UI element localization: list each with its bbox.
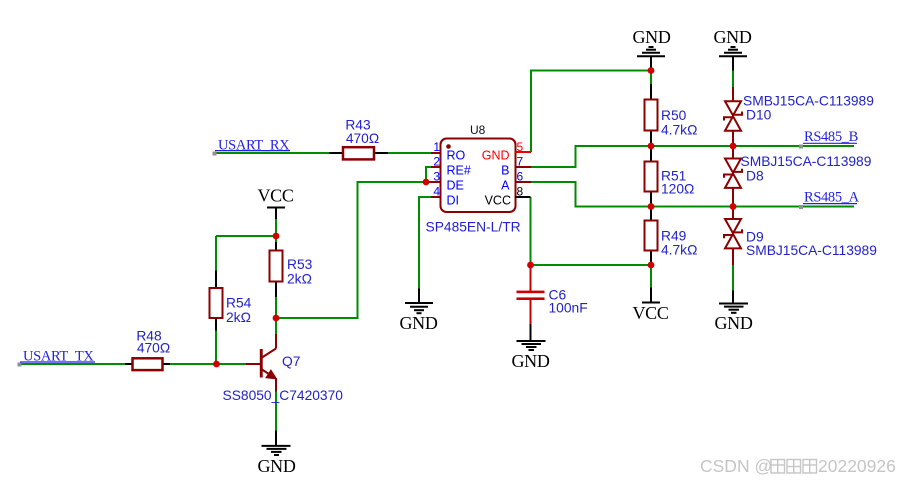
svg-text:120Ω: 120Ω	[661, 182, 694, 197]
junction RS485_B / R50-R51	[648, 143, 655, 150]
svg-text:GND: GND	[399, 313, 437, 333]
ground GND3 (below pin4 DI)	[418, 289, 420, 304]
wire R54 bottom to base node	[215, 331, 217, 365]
svg-text:GND: GND	[713, 27, 751, 47]
resistor R43	[329, 152, 342, 154]
junction RS485_A / R51-R49	[648, 203, 655, 210]
ground GND2 (top, above D10)	[732, 56, 734, 70]
svg-text:CSDN @: CSDN @	[700, 456, 772, 476]
svg-text:GND: GND	[632, 27, 670, 47]
U8 pin 4 stub	[431, 196, 441, 198]
svg-text:Q7: Q7	[282, 354, 300, 369]
U8 pin 2 stub	[431, 166, 441, 168]
U8 pin 6 stub	[516, 181, 532, 183]
svg-text:R53: R53	[287, 257, 313, 272]
wire node to R54 branch	[216, 235, 276, 237]
junction RS485_A / D8-D9	[730, 203, 737, 210]
svg-text:R49: R49	[661, 228, 687, 243]
wire VCC1 down to R53 node	[275, 219, 277, 236]
U8 pin 8 stub	[516, 196, 531, 198]
wire R53 bottom to collector node	[275, 297, 277, 318]
junction RS485_B / D10-D8	[730, 143, 737, 150]
svg-text:2: 2	[433, 155, 440, 169]
ground GND1 (top, above R50)	[650, 56, 652, 70]
svg-text:4.7kΩ: 4.7kΩ	[661, 242, 697, 257]
svg-text:470Ω: 470Ω	[346, 131, 379, 146]
IC U8 body SP485EN	[441, 139, 516, 213]
wire C6 node to R49/VCC node	[531, 264, 652, 266]
svg-text:B: B	[501, 164, 509, 178]
wire pin6 A to RS485_A line	[531, 182, 854, 207]
junction VCC net / C6 top	[527, 262, 534, 269]
wire collector node down	[275, 318, 277, 334]
watermark CSDN	[700, 456, 896, 476]
power VCC2 symbol (below R49)	[650, 288, 652, 303]
svg-text:GND: GND	[714, 313, 752, 333]
svg-text:1: 1	[433, 140, 440, 154]
resistor R50	[650, 84, 652, 100]
wire D9 bottom to GND6	[732, 265, 734, 291]
svg-text:2kΩ: 2kΩ	[226, 310, 251, 325]
U8 pin 3 stub	[426, 181, 441, 183]
wire pin7 B to RS485_B line	[531, 146, 854, 167]
wire R54 top branch vertical	[215, 236, 217, 271]
svg-text:RE#: RE#	[447, 164, 471, 178]
ground GND4 (below Q7 emitter)	[275, 431, 277, 446]
svg-text:GND: GND	[511, 351, 549, 371]
svg-text:A: A	[501, 179, 510, 193]
svg-text:GND: GND	[257, 456, 295, 476]
svg-text:3: 3	[433, 170, 440, 184]
svg-text:2kΩ: 2kΩ	[287, 272, 312, 287]
svg-text:470Ω: 470Ω	[137, 340, 170, 355]
wire USART_RX to R43	[215, 152, 329, 154]
svg-text:4.7kΩ: 4.7kΩ	[661, 123, 697, 138]
resistor R49	[650, 207, 652, 221]
svg-text:GND: GND	[482, 149, 510, 163]
transistor Q7	[246, 363, 260, 365]
wire R49 bottom node to VCC symbol	[650, 265, 652, 288]
wire R43 to U8 pin1	[388, 152, 432, 154]
svg-text:8: 8	[517, 185, 524, 199]
svg-text:DI: DI	[447, 194, 460, 208]
net open-end tick USART_RX	[213, 152, 217, 156]
net anchor tick RS485_B	[799, 145, 803, 149]
junction VCC / R53-R54	[273, 233, 280, 240]
svg-text:7: 7	[517, 155, 524, 169]
junction VCC net / R49 bottom	[648, 262, 655, 269]
svg-text:4: 4	[433, 185, 440, 199]
svg-text:RO: RO	[447, 149, 466, 163]
net anchor tick RS485_A	[799, 205, 803, 209]
svg-text:VCC: VCC	[485, 194, 511, 208]
wire R48 to Q7 base node	[170, 363, 246, 365]
wire GND2 down to D10	[732, 71, 734, 88]
svg-text:D8: D8	[746, 169, 764, 184]
svg-text:6: 6	[517, 170, 524, 184]
svg-text:5: 5	[517, 140, 524, 154]
wire USART_TX to R48	[19, 363, 125, 365]
svg-text:SMBJ15CA-C113989: SMBJ15CA-C113989	[743, 94, 874, 109]
svg-text:DE: DE	[447, 179, 464, 193]
svg-text:VCC: VCC	[632, 303, 668, 323]
svg-text:U8: U8	[470, 123, 486, 137]
diode D8 TVS	[732, 146, 734, 159]
junction R54 / Q7 base	[213, 361, 220, 368]
power VCC1 symbol (top left)	[275, 208, 277, 220]
wire RE#/DE net to Q7 collector node	[276, 167, 432, 318]
svg-text:RS485_B: RS485_B	[804, 129, 858, 145]
svg-text:20220926: 20220926	[818, 456, 896, 476]
diode D9 TVS	[732, 207, 734, 220]
junction RE#-DE tie	[423, 179, 430, 186]
U8 pin 7 stub	[516, 166, 532, 168]
svg-text:VCC: VCC	[257, 186, 293, 206]
U8 pin 5 stub	[516, 151, 532, 153]
wire pin5 GND up and over	[531, 71, 651, 153]
capacitor C6	[530, 265, 532, 291]
svg-text:100nF: 100nF	[549, 301, 588, 316]
svg-text:D10: D10	[746, 108, 772, 123]
svg-text:SMBJ15CA-C113989: SMBJ15CA-C113989	[741, 154, 872, 169]
resistor R54	[215, 271, 217, 289]
svg-text:R54: R54	[226, 296, 252, 311]
junction GND net / R50 top	[648, 67, 655, 74]
wire node down to R53	[275, 236, 277, 242]
junction R53 / Q7 collector	[273, 315, 280, 322]
resistor R48	[125, 363, 133, 365]
wire DI pin4 to ground	[419, 197, 432, 289]
wire pin8 VCC down to C6 node	[530, 197, 532, 265]
svg-text:SS8050_C7420370: SS8050_C7420370	[223, 388, 344, 403]
wire GND1 node down to R50	[650, 71, 652, 85]
svg-text:SMBJ15CA-C113989: SMBJ15CA-C113989	[746, 243, 877, 258]
svg-text:R50: R50	[661, 108, 687, 123]
wire Q7 emitter down to GND4	[275, 392, 277, 431]
diode D10 TVS	[732, 87, 734, 101]
resistor R53	[275, 242, 277, 251]
net open-end tick USART_TX	[18, 363, 22, 367]
resistor R51	[650, 146, 652, 162]
ground GND6 (below D9)	[732, 291, 734, 304]
svg-text:SP485EN-L/TR: SP485EN-L/TR	[426, 220, 521, 235]
U8 pin 1 stub	[431, 152, 441, 154]
ground GND5 (below C6)	[517, 340, 546, 342]
